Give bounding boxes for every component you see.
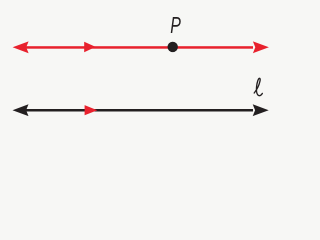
svg-text:P: P bbox=[170, 12, 181, 38]
